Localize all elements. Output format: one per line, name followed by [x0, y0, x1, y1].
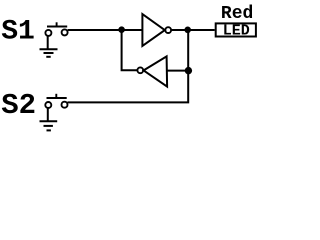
svg-text:Red: Red	[221, 4, 253, 24]
svg-text:S1: S1	[1, 17, 35, 48]
inverter U2 (bottom, pointing left)	[144, 56, 168, 86]
ground (S1)	[40, 36, 58, 57]
wire S1 to inverter U1 input	[68, 29, 143, 31]
switch S2	[45, 94, 67, 108]
U1 output bubble	[165, 27, 171, 33]
svg-text:LED: LED	[223, 22, 250, 39]
U2 output bubble	[137, 67, 143, 73]
wire U1 output to LED	[171, 29, 215, 31]
wire junction A down to U2 output	[122, 30, 138, 70]
ground (S2)	[40, 108, 58, 130]
wire junction C to U2 input	[167, 70, 188, 72]
switch S1	[45, 22, 67, 36]
op-amp U1 (top inverter triangle)	[142, 14, 164, 46]
LED box D1	[216, 23, 256, 36]
svg-text:S2: S2	[1, 89, 36, 122]
wire junction B down to S2 wire	[68, 30, 189, 103]
node junction C	[185, 67, 192, 74]
node junction A	[118, 26, 125, 33]
node junction B	[184, 27, 191, 34]
